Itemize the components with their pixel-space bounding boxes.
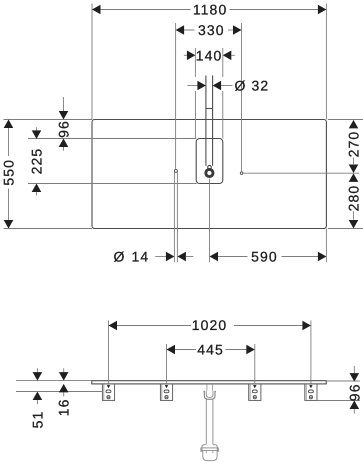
- bracket 1: [102, 384, 114, 400]
- right extension top edge: [328, 119, 363, 121]
- dim 550 line: [8, 120, 10, 156]
- trap inner lines: [205, 451, 207, 454]
- svg-text:550: 550: [1, 159, 17, 186]
- svg-text:Ø: Ø: [114, 249, 126, 265]
- dim 225 arrows (outside): [36, 127, 38, 131]
- svg-text:330: 330: [198, 22, 225, 38]
- dim 445 line: [167, 349, 196, 351]
- right extension drain centre: [243, 172, 359, 174]
- trap collar: [202, 445, 217, 451]
- svg-text:445: 445: [197, 341, 224, 357]
- dim 1180 extension right: [325, 4, 327, 120]
- dim 140 extension right: [222, 48, 224, 77]
- left extension top edge: [4, 119, 93, 121]
- trap side tabs: [201, 448, 202, 451]
- dim 96 front arrows: [353, 366, 355, 374]
- drain tailpipe: [205, 399, 207, 444]
- dim 16 arrows: [63, 368, 65, 372]
- svg-text:51: 51: [29, 411, 45, 429]
- dim 330 extension left / leader to D14 hole: [175, 23, 177, 169]
- svg-text:96: 96: [56, 120, 72, 138]
- left extension basin top: [28, 138, 196, 140]
- svg-text:590: 590: [251, 249, 278, 265]
- dim 51 arrows: [36, 368, 38, 372]
- bracket 4: [305, 384, 317, 400]
- bracket 3: [249, 384, 261, 400]
- drain outlet flange ears: [203, 391, 204, 393]
- dim D32 tangent line left: [205, 76, 207, 166]
- svg-text:140: 140: [196, 47, 223, 63]
- dim 330 extension right / leader to reference point: [241, 23, 243, 172]
- dim D32 arrows: [187, 85, 198, 87]
- shared arrowheads at drain centre: [349, 165, 359, 174]
- basin cutout outline: [196, 139, 223, 184]
- bracket slot extension left: [16, 391, 102, 393]
- svg-text:280: 280: [346, 185, 362, 212]
- svg-text:16: 16: [56, 398, 72, 416]
- drain outlet cup: [204, 391, 215, 399]
- slab top extension left: [16, 380, 92, 382]
- dim 1180 extension left: [91, 4, 93, 120]
- dim 270 line: [353, 158, 355, 165]
- svg-text:225: 225: [29, 148, 45, 175]
- dim 1020 extension right: [310, 321, 312, 385]
- dim 140 extension left: [194, 48, 196, 77]
- svg-text:96: 96: [346, 383, 362, 401]
- drain overflow notch: [208, 165, 212, 169]
- svg-text:1180: 1180: [193, 2, 228, 18]
- reference point circle: [240, 172, 243, 175]
- svg-text:270: 270: [346, 131, 362, 158]
- drain outlet stub: [206, 384, 208, 390]
- dim 1020 line: [109, 325, 191, 327]
- D14 tangent line right: [176, 172, 178, 262]
- svg-text:1020: 1020: [192, 317, 228, 333]
- dim 140 arrows (outside): [184, 54, 188, 56]
- D14 tangent line left: [173, 172, 175, 262]
- dim 280 line: [353, 211, 355, 219]
- bracket 2: [160, 384, 172, 400]
- left extension bottom edge: [4, 228, 93, 230]
- countertop outline: [92, 120, 326, 229]
- trap cup: [203, 451, 217, 461]
- svg-text:Ø 32: Ø 32: [235, 77, 270, 93]
- D32 depth tick: [206, 108, 213, 110]
- dim 590 line: [218, 256, 248, 258]
- svg-text:14: 14: [132, 249, 150, 265]
- dim D32 tangent line right: [212, 76, 214, 166]
- dim 445 extension right: [254, 344, 256, 385]
- dim D14 arrows: [155, 256, 166, 258]
- console slab: [92, 381, 326, 384]
- bracket bottom extension right: [317, 400, 360, 402]
- drain ring: [206, 169, 213, 176]
- right edge extension down: [325, 229, 327, 263]
- slab top extension right: [326, 380, 360, 382]
- drain centre extension down: [209, 179, 211, 263]
- dim 330 line: [176, 29, 194, 31]
- dim 96 arrows (outside): [63, 97, 65, 112]
- dim 445 extension left: [166, 344, 168, 385]
- left extension basin bottom: [28, 183, 197, 185]
- dim 1180 line: [93, 9, 191, 11]
- dim 1020 extension left: [108, 321, 110, 385]
- right extension bottom edge: [328, 228, 363, 230]
- hole D14: [174, 169, 177, 172]
